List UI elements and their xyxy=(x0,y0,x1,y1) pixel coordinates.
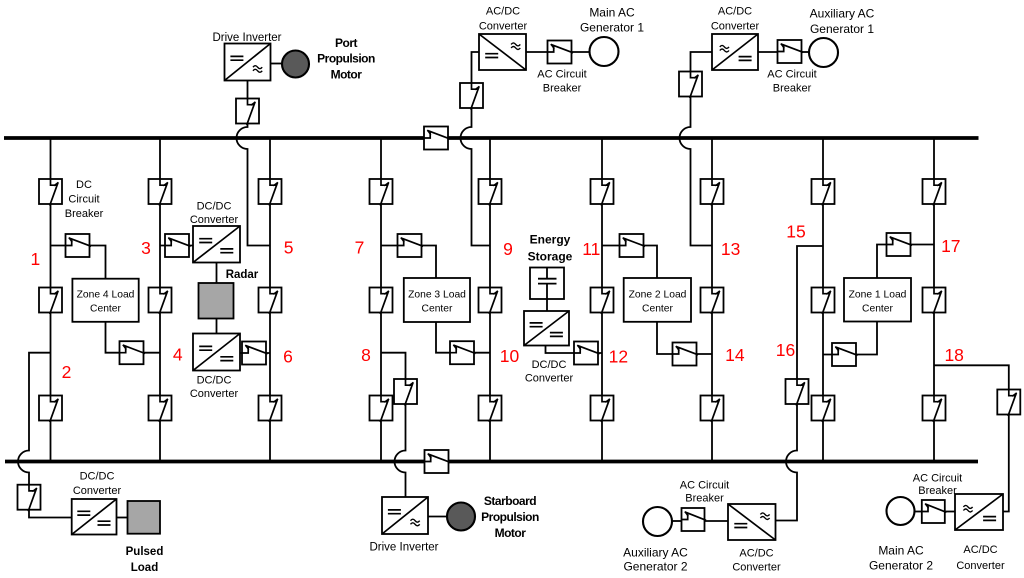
wire breaker 16 to bottom bus hop xyxy=(796,404,798,442)
wire breaker to top bus hop (gen1) xyxy=(471,107,473,118)
DC circuit breaker column 1 row B xyxy=(39,288,62,315)
bus tie breaker top bus xyxy=(424,127,450,150)
zone 4 load center label xyxy=(77,290,135,315)
wire AC breaker to aux generator 1 xyxy=(801,51,810,53)
svg-text:Starboard: Starboard xyxy=(484,494,536,508)
wire zone 2 top link (node 11) xyxy=(602,246,657,279)
DC circuit breaker column 17 row C xyxy=(923,396,946,423)
svg-text:Propulsion: Propulsion xyxy=(317,52,375,66)
wire AC breaker to aux generator 2 xyxy=(672,520,682,522)
wire column 1 to pulsed branch (node 2) xyxy=(29,353,51,442)
hop over bottom bus (starboard branch) xyxy=(395,442,406,482)
pulsed load xyxy=(128,501,161,534)
wire zone 3 top link (node 7) xyxy=(381,246,436,279)
DC circuit breaker column 5 row C xyxy=(259,396,282,423)
svg-text:Drive Inverter: Drive Inverter xyxy=(369,542,438,554)
wire column 7 xyxy=(380,138,382,462)
wire column 1 xyxy=(50,138,52,462)
zone 2 load center xyxy=(624,278,691,322)
svg-text:Auxiliary AC: Auxiliary AC xyxy=(810,7,875,21)
svg-text:Converter: Converter xyxy=(479,21,528,33)
DC/DC converter radar lower xyxy=(193,334,240,371)
drive inverter starboard xyxy=(382,497,428,534)
DC circuit breaker column 7 row B xyxy=(370,288,393,315)
DC circuit breaker gen1 branch xyxy=(460,83,483,110)
svg-text:13: 13 xyxy=(721,239,740,259)
svg-text:Converter: Converter xyxy=(525,373,574,385)
breaker zone 3 bottom xyxy=(450,341,476,364)
DC circuit breaker column 17 row B xyxy=(923,288,946,315)
svg-text:AC/DC: AC/DC xyxy=(486,6,520,18)
svg-text:Main AC: Main AC xyxy=(878,544,924,558)
label AC circuit breaker gen1 xyxy=(537,69,587,95)
svg-text:Center: Center xyxy=(642,304,673,315)
DC circuit breaker port inverter branch xyxy=(236,99,259,126)
label auxiliary AC generator 2 xyxy=(623,546,688,574)
svg-text:AC/DC: AC/DC xyxy=(718,6,752,18)
top MVDC bus xyxy=(4,136,979,140)
wire breaker to bottom bus hop (starboard) xyxy=(405,404,407,442)
DC circuit breaker 18 branch (main gen2) xyxy=(997,390,1020,417)
main AC generator 2 xyxy=(887,497,915,525)
label AC/DC converter gen1 xyxy=(479,6,528,33)
label main AC generator 1 xyxy=(580,6,644,35)
svg-text:AC Circuit: AC Circuit xyxy=(537,69,587,81)
svg-text:Circuit: Circuit xyxy=(68,194,99,206)
zone 3 load center xyxy=(404,278,470,322)
svg-text:Breaker: Breaker xyxy=(685,493,724,505)
DC circuit breaker column 7 row C xyxy=(370,396,393,423)
svg-text:Zone 2 Load: Zone 2 Load xyxy=(629,290,687,301)
zone 1 load center xyxy=(844,278,911,322)
AC circuit breaker aux gen2 xyxy=(682,508,707,531)
wire gen1 branch to column 9 (node 9) xyxy=(472,158,491,246)
DC circuit breaker column 5 row A xyxy=(259,179,282,206)
wire drive inverter to breaker xyxy=(247,80,249,99)
DC circuit breaker column 11 row B xyxy=(591,288,614,315)
DC circuit breaker column 3 row A xyxy=(149,179,172,206)
breaker zone 2 bottom xyxy=(673,343,699,366)
label auxiliary AC generator 1 xyxy=(810,7,875,37)
DC circuit breaker column 7 row A xyxy=(370,179,393,206)
svg-text:DC/DC: DC/DC xyxy=(80,471,115,483)
label port propulsion motor xyxy=(317,36,375,82)
wire drive inverter to port motor xyxy=(270,63,283,65)
svg-text:Port: Port xyxy=(335,36,358,50)
svg-text:Pulsed: Pulsed xyxy=(126,546,164,558)
svg-text:Auxiliary AC: Auxiliary AC xyxy=(623,546,688,560)
svg-text:AC/DC: AC/DC xyxy=(963,544,997,556)
wire column 7 to starboard branch (node 8) xyxy=(381,353,406,379)
wire column 13 xyxy=(711,138,713,462)
wire zone 1 top link (node 17) xyxy=(877,245,934,279)
hop over top bus (gen1 branch) xyxy=(461,118,472,158)
svg-text:Converter: Converter xyxy=(956,560,1005,572)
svg-text:DC/DC: DC/DC xyxy=(197,375,232,387)
breaker zone 3 feed xyxy=(398,234,424,257)
DC circuit breaker column 1 row C xyxy=(39,396,62,423)
breaker zone 4 feed xyxy=(66,234,92,257)
DC circuit breaker column 11 row A xyxy=(591,179,614,206)
svg-text:3: 3 xyxy=(141,238,151,258)
DC circuit breaker starboard inverter branch xyxy=(394,379,417,406)
DC circuit breaker column 15 row B xyxy=(812,288,835,315)
breaker zone 1 bottom xyxy=(832,343,858,366)
svg-text:Storage: Storage xyxy=(528,250,573,264)
svg-text:11: 11 xyxy=(582,239,600,259)
hop over bottom bus (pulsed branch) xyxy=(18,442,29,482)
svg-text:Zone 4 Load: Zone 4 Load xyxy=(77,290,135,301)
label main AC generator 2 xyxy=(869,544,933,573)
AC circuit breaker main gen2 xyxy=(922,500,947,523)
DC circuit breaker column 11 row C xyxy=(591,396,614,423)
svg-text:Breaker: Breaker xyxy=(918,485,957,497)
drive inverter port xyxy=(225,44,271,81)
wire radar to lower converter xyxy=(216,319,218,334)
wire converter to AC breaker (gen1) xyxy=(526,51,548,53)
wire radar converter to radar xyxy=(216,263,218,284)
svg-text:AC Circuit: AC Circuit xyxy=(767,69,817,81)
DC circuit breaker column 3 row B xyxy=(149,288,172,315)
wire converter to breaker (aux gen1) xyxy=(691,52,713,73)
wire column 9 xyxy=(489,138,491,462)
svg-text:5: 5 xyxy=(284,238,294,258)
wire port branch to column 5 (node 5) xyxy=(248,158,271,246)
svg-text:Main AC: Main AC xyxy=(589,6,635,20)
wire hop to breaker (pulsed) xyxy=(28,482,30,487)
label DC/DC converter pulsed xyxy=(73,471,122,498)
svg-text:Motor: Motor xyxy=(331,68,363,82)
breaker radar output (node 6) xyxy=(242,342,268,365)
svg-text:1: 1 xyxy=(31,249,41,269)
wire drive inverter to starboard motor xyxy=(428,516,447,518)
breaker zone 2 feed xyxy=(620,234,646,257)
svg-text:14: 14 xyxy=(725,345,745,365)
svg-text:16: 16 xyxy=(776,340,795,360)
wire aux gen1 branch to column 13 (node 13) xyxy=(691,158,713,246)
energy storage module xyxy=(530,268,564,300)
svg-text:Breaker: Breaker xyxy=(543,83,582,95)
DC circuit breaker 16 (aux gen2 branch) xyxy=(786,379,809,406)
DC circuit breaker column 15 row A xyxy=(812,179,835,206)
svg-text:Generator 2: Generator 2 xyxy=(623,560,687,574)
DC circuit breaker column 13 row C xyxy=(701,396,724,423)
wire hop to drive inverter (starboard) xyxy=(405,482,407,498)
bottom MVDC bus xyxy=(5,460,978,464)
svg-text:Radar: Radar xyxy=(226,269,259,281)
svg-text:DC: DC xyxy=(76,179,92,191)
DC circuit breaker aux gen1 branch xyxy=(679,72,702,99)
label AC circuit breaker main gen2 xyxy=(913,473,963,498)
wire hop to converter (aux gen2) xyxy=(776,482,798,521)
wire converter to AC breaker (main gen2) xyxy=(945,511,955,513)
svg-text:Converter: Converter xyxy=(73,485,122,497)
wire breaker 18 to converter (main gen2) xyxy=(1003,413,1009,512)
wire column 11 xyxy=(601,138,603,462)
DC circuit breaker column 15 row C xyxy=(812,396,835,423)
wire storage converter to column 11 (node 12) xyxy=(546,346,603,354)
main AC generator 1 xyxy=(590,37,619,66)
wire column 15 to aux gen2 branch (node 15) xyxy=(797,246,823,379)
svg-text:AC Circuit: AC Circuit xyxy=(680,480,730,492)
wire converter to AC breaker (aux gen1) xyxy=(758,51,778,53)
bus tie breaker bottom bus xyxy=(425,450,451,473)
wire zone 4 top link (node 1) xyxy=(51,246,106,279)
wire converter to breaker (gen1) xyxy=(472,52,480,84)
breaker radar feed xyxy=(165,234,191,257)
AC/DC converter main gen2 xyxy=(955,494,1003,530)
auxiliary AC generator 2 xyxy=(643,507,672,536)
AC circuit breaker aux gen1 xyxy=(778,40,804,63)
svg-text:Energy: Energy xyxy=(530,233,571,247)
label DC/DC converter radar upper xyxy=(190,201,239,227)
label DC/DC converter radar lower xyxy=(190,375,239,401)
zone 4 load center xyxy=(72,279,138,322)
wire zone 3 bottom link (node 10) xyxy=(436,322,490,353)
svg-text:4: 4 xyxy=(173,345,183,365)
svg-text:Generator 1: Generator 1 xyxy=(810,22,874,36)
svg-text:15: 15 xyxy=(786,222,805,242)
AC/DC converter aux gen2 xyxy=(728,504,776,540)
svg-text:Converter: Converter xyxy=(711,21,760,33)
hop over bottom bus (aux gen2 branch) xyxy=(786,442,797,482)
svg-text:6: 6 xyxy=(283,347,293,367)
DC circuit breaker column 13 row A xyxy=(701,179,724,206)
svg-text:Converter: Converter xyxy=(190,388,239,400)
svg-text:Converter: Converter xyxy=(732,562,781,574)
svg-text:Center: Center xyxy=(862,304,893,315)
label pulsed load xyxy=(126,546,164,574)
DC circuit breaker column 9 row C xyxy=(479,396,502,423)
label AC circuit breaker aux gen2 xyxy=(680,480,730,505)
AC/DC converter main gen1 xyxy=(479,34,526,70)
AC/DC converter aux gen1 xyxy=(712,34,758,70)
DC circuit breaker column 9 row A xyxy=(479,179,502,206)
svg-text:Drive Inverter: Drive Inverter xyxy=(212,32,281,44)
label DC circuit breaker xyxy=(65,179,104,220)
svg-text:10: 10 xyxy=(500,346,520,366)
wire storage to converter xyxy=(546,299,548,311)
svg-text:AC/DC: AC/DC xyxy=(739,548,773,560)
AC circuit breaker gen1 xyxy=(548,41,574,64)
svg-text:9: 9 xyxy=(503,239,513,259)
label AC/DC converter aux gen1 xyxy=(711,6,760,33)
DC/DC converter energy storage xyxy=(524,311,569,346)
wire breaker to top bus hop (aux gen1) xyxy=(690,95,692,118)
label energy storage xyxy=(528,233,573,264)
svg-text:12: 12 xyxy=(609,347,628,367)
wire radar feed (node 3) xyxy=(160,245,193,247)
svg-text:DC/DC: DC/DC xyxy=(197,201,232,213)
auxiliary AC generator 1 xyxy=(809,38,838,67)
wire converter to pulsed load xyxy=(117,517,128,519)
starboard propulsion motor xyxy=(447,503,475,531)
svg-text:17: 17 xyxy=(941,236,960,256)
zone 3 load center label xyxy=(408,290,466,315)
wire column 3 xyxy=(159,138,161,462)
zone 2 load center label xyxy=(629,290,687,315)
DC circuit breaker column 1 row A xyxy=(39,179,62,206)
svg-text:18: 18 xyxy=(944,345,963,365)
breaker energy storage output xyxy=(574,342,600,365)
wire zone 4 bottom link (node 2) xyxy=(106,322,161,353)
svg-text:Zone 1 Load: Zone 1 Load xyxy=(849,290,907,301)
port propulsion motor xyxy=(282,51,309,78)
svg-text:Center: Center xyxy=(422,304,453,315)
svg-text:Propulsion: Propulsion xyxy=(481,510,539,524)
DC circuit breaker column 9 row B xyxy=(479,288,502,315)
svg-text:Center: Center xyxy=(90,304,121,315)
label AC/DC converter main gen2 xyxy=(956,544,1005,572)
wire column 17 to branch 18 xyxy=(934,365,1009,391)
DC circuit breaker column 13 row B xyxy=(701,288,724,315)
hop over top bus (aux gen1 branch) xyxy=(680,118,691,158)
wire AC breaker to generator 1 xyxy=(571,51,590,53)
svg-text:Motor: Motor xyxy=(495,526,527,540)
DC circuit breaker column 5 row B xyxy=(259,288,282,315)
label AC/DC converter aux gen2 xyxy=(732,548,781,574)
svg-text:Generator 2: Generator 2 xyxy=(869,559,933,573)
breaker zone 4 bottom xyxy=(120,341,146,364)
label DC/DC converter storage xyxy=(525,359,574,385)
svg-text:Zone 3 Load: Zone 3 Load xyxy=(408,290,466,301)
label AC circuit breaker aux gen1 xyxy=(767,69,817,95)
zone 1 load center label xyxy=(849,290,907,315)
svg-text:Converter: Converter xyxy=(190,214,239,226)
wire breaker to DC/DC converter (pulsed) xyxy=(29,509,72,518)
DC circuit breaker pulsed load branch xyxy=(18,485,41,512)
wire column 15 xyxy=(822,138,824,462)
svg-text:DC/DC: DC/DC xyxy=(532,359,567,371)
svg-text:Generator 1: Generator 1 xyxy=(580,21,644,35)
svg-text:AC Circuit: AC Circuit xyxy=(913,473,963,485)
svg-text:2: 2 xyxy=(62,362,72,382)
DC circuit breaker column 3 row C xyxy=(149,396,172,423)
breaker zone 1 feed xyxy=(887,233,913,256)
svg-text:Load: Load xyxy=(131,562,158,574)
DC/DC converter radar upper xyxy=(193,226,240,263)
wire converter to AC breaker (aux gen2) xyxy=(705,520,729,522)
wire zone 1 bottom link xyxy=(823,322,877,355)
wire zone 2 bottom link (node 14) xyxy=(657,322,712,354)
svg-text:Breaker: Breaker xyxy=(65,208,104,220)
svg-text:7: 7 xyxy=(355,238,365,258)
radar load xyxy=(199,283,234,319)
label starboard propulsion motor xyxy=(481,494,539,540)
wire column 17 xyxy=(933,138,935,462)
svg-text:8: 8 xyxy=(361,345,371,365)
DC/DC converter pulsed load xyxy=(72,499,117,535)
wire breaker to top bus hop xyxy=(247,118,249,123)
svg-text:Breaker: Breaker xyxy=(773,83,812,95)
wire column 5 xyxy=(269,138,271,462)
wire lower converter to column 5 (node 6) xyxy=(240,352,270,354)
DC circuit breaker column 17 row A xyxy=(923,179,946,206)
hop over top bus (port branch) xyxy=(237,118,248,158)
wire AC breaker to main generator 2 xyxy=(915,511,923,513)
